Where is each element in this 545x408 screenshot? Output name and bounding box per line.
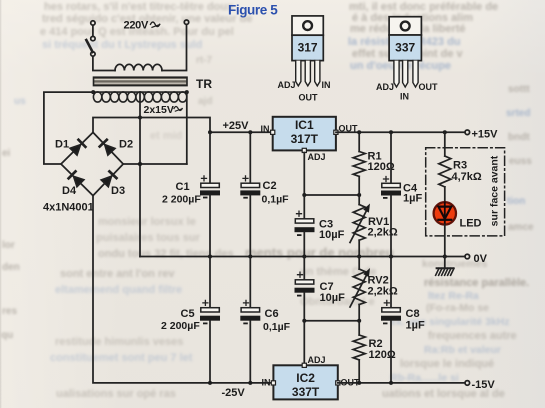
wire IC1 ADJ down: [303, 153, 305, 196]
junction C1 top: [208, 130, 212, 134]
junction C2 top: [248, 130, 252, 134]
junction C4 top: [389, 130, 393, 134]
LED: [434, 202, 456, 224]
svg-text:-25V: -25V: [222, 387, 246, 399]
junction C4-C8 0V: [389, 255, 393, 259]
dashed front-panel box: [426, 148, 505, 236]
junction secondary left end: [91, 90, 95, 94]
label sur face avant: [489, 155, 501, 226]
bridge rectifier diamond: [61, 132, 123, 195]
capacitor C6: [240, 257, 260, 383]
capacitor C3: [295, 195, 315, 257]
svg-text:0,1µF: 0,1µF: [262, 194, 290, 206]
svg-text:C5: C5: [181, 308, 195, 320]
junction C3-C7 0V: [302, 255, 306, 259]
junction R3 top: [443, 130, 447, 134]
svg-text:IC1: IC1: [295, 118, 314, 132]
svg-text:10µF: 10µF: [319, 229, 345, 241]
label C5: [161, 308, 200, 332]
label IC2: [292, 371, 320, 399]
diode D1: [70, 140, 85, 155]
svg-text:ADJ: ADJ: [278, 80, 296, 90]
svg-text:10µF: 10µF: [320, 292, 346, 304]
svg-text:IN: IN: [322, 80, 331, 90]
pin labels 337: [376, 82, 438, 102]
svg-text:Figure 5: Figure 5: [228, 3, 278, 18]
svg-text:IC2: IC2: [296, 371, 315, 385]
junction V1 line A: [138, 116, 142, 120]
svg-text:337T: 337T: [292, 385, 320, 399]
pin label IN (IC1): [261, 124, 270, 134]
svg-text:C2: C2: [263, 180, 277, 192]
switch lever: [86, 40, 92, 52]
wire line A bridge top to +25V corner: [93, 118, 210, 133]
wire switch top link: [92, 25, 94, 36]
label IC1: [291, 118, 319, 146]
svg-text:1µF: 1µF: [403, 193, 422, 205]
wire secondary left end to bridge left: [44, 92, 93, 164]
transformer core: [94, 77, 188, 85]
svg-text:2 200µF: 2 200µF: [162, 194, 201, 206]
junction V1 line B: [138, 162, 142, 166]
label RV2: [368, 275, 398, 298]
resistor R1: [353, 132, 365, 195]
pin labels 317: [278, 80, 331, 103]
capacitor C5: [200, 257, 220, 383]
label C4: [403, 183, 422, 205]
svg-text:2,2kΩ: 2,2kΩ: [368, 286, 398, 298]
transformer secondary winding: [93, 92, 187, 102]
package 337 outline: [389, 17, 421, 61]
label 220V~: [124, 20, 149, 32]
label C6: [263, 308, 291, 333]
svg-text:OUT: OUT: [419, 82, 439, 92]
label R3: [452, 160, 482, 184]
label C8: [406, 308, 425, 332]
AC symbol for 2x15V: [174, 107, 182, 112]
package 317 legs: [296, 61, 320, 86]
svg-text:D4: D4: [62, 185, 77, 197]
svg-text:ADJ: ADJ: [376, 82, 394, 92]
svg-text:2,2kΩ: 2,2kΩ: [368, 227, 398, 239]
label TR: [196, 77, 212, 91]
label R1: [368, 151, 395, 174]
wire center tap V1 down to 0V: [139, 92, 141, 256]
label 2x15V: [144, 104, 174, 116]
junction LED-ground 0V: [443, 255, 447, 259]
svg-text:220V: 220V: [124, 20, 149, 32]
label 0V: [474, 253, 488, 265]
svg-text:ADJ: ADJ: [308, 355, 326, 365]
label +25V: [223, 120, 250, 132]
svg-text:OUT: OUT: [299, 93, 319, 103]
bleed-through text from reverse page: [349, 1, 498, 13]
junction ADJ1 corner: [302, 193, 306, 197]
label +15V: [472, 129, 499, 141]
wire ADJ2 horizontal: [304, 320, 359, 322]
label -25V: [222, 387, 246, 399]
label RV1: [368, 216, 398, 239]
junction R2 bottom: [357, 381, 361, 385]
wire IC2 ADJ up: [303, 321, 305, 365]
wire line B right vertex to V2: [123, 163, 187, 165]
label C7: [320, 281, 346, 304]
wire LED to 0V: [444, 224, 446, 256]
svg-text:317T: 317T: [291, 132, 319, 146]
terminal 220V right: [184, 20, 188, 24]
junction C1-C5 0V: [208, 255, 212, 259]
capacitor C4: [381, 132, 401, 256]
wire +15V rail: [336, 131, 465, 133]
label D1: [55, 139, 69, 151]
resistor R3: [439, 132, 451, 202]
wire bridge bottom to -25V rail: [93, 196, 273, 383]
diode D3: [101, 171, 116, 186]
svg-text:2 200µF: 2 200µF: [161, 320, 200, 332]
diode D4: [69, 171, 84, 186]
terminal 0V: [465, 254, 470, 259]
svg-text:1µF: 1µF: [406, 320, 425, 332]
junction ADJ1-R1-RV1: [357, 193, 361, 197]
svg-text:R3: R3: [453, 160, 467, 172]
svg-text:D2: D2: [119, 139, 133, 151]
svg-text:IN: IN: [400, 92, 409, 102]
wire ADJ1 horizontal: [304, 194, 359, 196]
pin label ADJ (IC2): [308, 355, 326, 365]
label 317: [298, 41, 318, 55]
label -15V: [472, 379, 496, 391]
switch S (mains) terminal top: [91, 21, 95, 25]
wire 0V rail: [140, 256, 465, 258]
svg-text:0V: 0V: [474, 253, 488, 265]
svg-text:D3: D3: [111, 185, 125, 197]
package 337 legs: [394, 61, 418, 87]
svg-text:4x1N4001: 4x1N4001: [43, 202, 94, 214]
wire +25V rail: [210, 131, 273, 133]
svg-text:IN: IN: [262, 378, 271, 388]
junction C6 bottom: [248, 381, 252, 385]
svg-text:317: 317: [298, 41, 318, 55]
diode D2: [100, 140, 115, 155]
label LED: [460, 218, 482, 230]
switch contact lower: [91, 52, 95, 56]
svg-text:0,1µF: 0,1µF: [263, 321, 291, 333]
transformer TR primary winding: [115, 64, 162, 70]
svg-text:+25V: +25V: [223, 120, 250, 132]
label D2: [119, 139, 133, 151]
svg-text:C8: C8: [406, 308, 420, 320]
switch contact upper: [91, 36, 95, 40]
svg-text:-15V: -15V: [472, 379, 496, 391]
wire switch to primary: [93, 56, 115, 70]
label C3: [319, 219, 345, 242]
junction ADJ2 corner: [302, 319, 306, 323]
wire V2 secondary right end down: [186, 92, 188, 164]
svg-text:TR: TR: [196, 77, 212, 91]
ground symbol: [436, 257, 454, 276]
junction secondary right end: [185, 90, 189, 94]
svg-text:4,7kΩ: 4,7kΩ: [452, 171, 482, 183]
terminal -15V: [465, 381, 470, 386]
junction C8 bottom: [389, 381, 393, 385]
junction C2-C6 0V: [248, 255, 252, 259]
capacitor C1: [200, 132, 220, 256]
svg-text:2x15V: 2x15V: [144, 104, 174, 116]
svg-text:D1: D1: [55, 139, 69, 151]
svg-text:+15V: +15V: [472, 129, 499, 141]
wire primary right end: [162, 24, 187, 70]
regulator IC2 337T: [271, 363, 340, 399]
pin label IN (IC2): [262, 378, 271, 388]
capacitor C8: [381, 257, 401, 383]
junction RV1-RV2 0V: [357, 255, 361, 259]
svg-text:IN: IN: [261, 124, 270, 134]
junction C5 bottom: [208, 381, 212, 385]
svg-text:337: 337: [395, 41, 415, 55]
junction R1 top: [357, 130, 361, 134]
terminal +15V: [465, 130, 470, 135]
trimmer RV1: [350, 195, 370, 257]
capacitor C7: [295, 257, 315, 321]
pin label ADJ (IC1): [308, 152, 326, 162]
label D3: [111, 185, 125, 197]
label 4x1N4001: [43, 202, 94, 214]
label 337: [395, 41, 415, 55]
svg-text:sur face avant: sur face avant: [489, 155, 501, 226]
AC symbol for 220V: [151, 22, 160, 27]
junction ADJ2-RV2-R2: [357, 319, 361, 323]
label C1: [162, 181, 201, 206]
label C2: [262, 180, 290, 206]
resistor R2: [353, 321, 365, 383]
pin label OUT (IC2): [341, 378, 361, 388]
pin label OUT (IC1): [339, 124, 359, 134]
label D4: [62, 185, 77, 197]
label R2: [369, 338, 396, 361]
title Figure 5: [228, 3, 278, 18]
trimmer RV2: [350, 257, 370, 321]
svg-text:ADJ: ADJ: [308, 152, 326, 162]
package 317 outline: [292, 16, 323, 61]
svg-text:C1: C1: [176, 181, 190, 193]
regulator IC1 317T: [271, 117, 338, 153]
svg-text:LED: LED: [460, 218, 482, 230]
capacitor C2: [240, 132, 260, 256]
svg-text:C6: C6: [265, 308, 279, 320]
wire -15V rail: [338, 382, 465, 384]
